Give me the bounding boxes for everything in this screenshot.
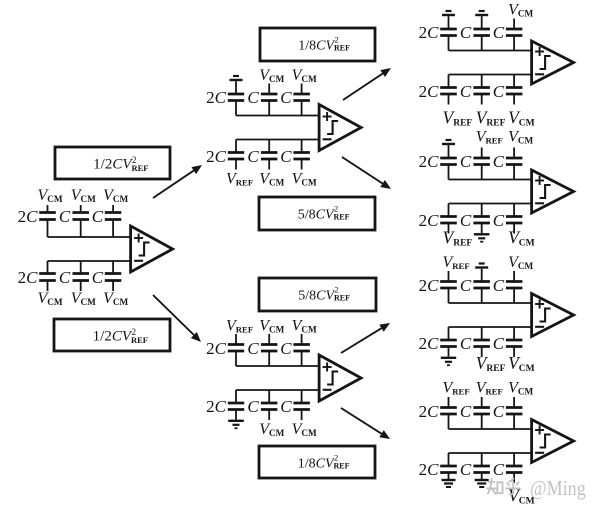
- svg-text:C: C: [280, 147, 292, 166]
- svg-text:2C: 2C: [419, 23, 440, 42]
- svg-text:@Ming: @Ming: [530, 477, 586, 501]
- svg-text:1/2CV: 1/2CV: [93, 329, 133, 345]
- svg-text:REF: REF: [132, 163, 149, 173]
- svg-text:REF: REF: [334, 213, 350, 222]
- svg-text:C: C: [247, 147, 259, 166]
- svg-text:C: C: [460, 82, 472, 101]
- svg-text:5/8CV: 5/8CV: [298, 289, 335, 304]
- svg-text:C: C: [460, 460, 472, 479]
- svg-text:REF: REF: [131, 335, 148, 345]
- svg-text:2C: 2C: [206, 147, 227, 166]
- svg-text:C: C: [280, 397, 292, 416]
- svg-text:1/8CV: 1/8CV: [298, 39, 335, 54]
- svg-text:C: C: [493, 82, 505, 101]
- svg-text:C: C: [493, 402, 505, 421]
- svg-text:C: C: [493, 276, 505, 295]
- svg-text:C: C: [460, 334, 472, 353]
- svg-text:2C: 2C: [419, 334, 440, 353]
- svg-text:C: C: [460, 211, 472, 230]
- svg-text:2C: 2C: [206, 339, 227, 358]
- svg-text:C: C: [59, 207, 71, 226]
- svg-text:C: C: [460, 276, 472, 295]
- svg-text:C: C: [247, 88, 259, 107]
- svg-text:2C: 2C: [206, 397, 227, 416]
- svg-text:1/2CV: 1/2CV: [93, 157, 133, 173]
- svg-text:REF: REF: [334, 294, 350, 303]
- svg-text:C: C: [92, 268, 104, 287]
- svg-text:C: C: [460, 152, 472, 171]
- svg-text:C: C: [460, 23, 472, 42]
- svg-text:2C: 2C: [419, 152, 440, 171]
- svg-text:2C: 2C: [419, 402, 440, 421]
- svg-text:C: C: [493, 334, 505, 353]
- svg-text:C: C: [92, 207, 104, 226]
- svg-text:C: C: [460, 402, 472, 421]
- svg-text:C: C: [493, 211, 505, 230]
- svg-text:1/8CV: 1/8CV: [298, 457, 335, 472]
- svg-text:C: C: [247, 397, 259, 416]
- svg-text:C: C: [247, 339, 259, 358]
- svg-text:2C: 2C: [419, 211, 440, 230]
- svg-text:2C: 2C: [18, 207, 39, 226]
- svg-text:2C: 2C: [419, 460, 440, 479]
- svg-text:5/8CV: 5/8CV: [298, 208, 335, 223]
- svg-text:2C: 2C: [18, 268, 39, 287]
- svg-text:C: C: [59, 268, 71, 287]
- svg-text:C: C: [280, 339, 292, 358]
- svg-text:C: C: [493, 460, 505, 479]
- svg-text:REF: REF: [334, 462, 350, 471]
- svg-text:C: C: [280, 88, 292, 107]
- svg-text:REF: REF: [334, 44, 350, 53]
- svg-text:C: C: [493, 23, 505, 42]
- svg-text:2C: 2C: [206, 88, 227, 107]
- svg-text:C: C: [493, 152, 505, 171]
- svg-text:2C: 2C: [419, 276, 440, 295]
- svg-text:2C: 2C: [419, 82, 440, 101]
